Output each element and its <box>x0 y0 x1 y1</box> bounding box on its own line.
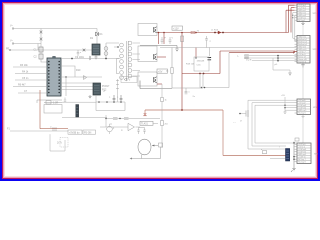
ground <box>291 169 296 173</box>
wire red feed XP1 a <box>289 5 295 32</box>
wire red +5 out <box>157 56 166 58</box>
ground <box>175 46 179 52</box>
ground <box>301 63 305 67</box>
LED HL1 red <box>144 110 146 113</box>
wire Q6 leads <box>110 124 113 134</box>
svg-text:2i:?t: 2i:?t <box>57 142 62 145</box>
wire primary bottom tap <box>117 59 120 74</box>
svg-text:R18 1k5: R18 1k5 <box>186 64 195 66</box>
Y-capacitor C13 <box>169 37 172 44</box>
svg-text:PwrOK 11: PwrOK 11 <box>298 62 306 64</box>
opto coupler U3 <box>93 83 101 95</box>
wire 5V feeds <box>248 100 295 105</box>
connector XP2 <box>297 36 310 64</box>
chassis link XP1-XP2 <box>302 26 304 36</box>
wire to IC pin <box>41 45 47 62</box>
wire return dark <box>140 81 172 89</box>
svg-text:-- -: -- - <box>233 122 236 124</box>
diode D3 <box>104 47 108 51</box>
fuse FU2 <box>191 31 195 33</box>
capacitor C15 <box>205 36 208 48</box>
wire U2 drain row <box>61 58 121 60</box>
wire red drop main <box>181 33 183 111</box>
node B <box>65 76 67 78</box>
transformer T1 secondary winding <box>128 41 132 78</box>
wire pin left 3 <box>15 79 47 81</box>
svg-text:1N4148: 1N4148 <box>197 61 205 63</box>
svg-text:L1 R15: L1 R15 <box>211 30 219 32</box>
node red joints <box>158 32 160 34</box>
wire red 3V3 <box>157 83 162 85</box>
wire earth <box>10 49 92 51</box>
wire drop to R21 <box>161 84 163 98</box>
node red <box>181 109 183 111</box>
ground <box>301 22 305 26</box>
wire feedback <box>61 66 75 77</box>
diode VD2 <box>154 54 157 60</box>
svg-text:C5 1n: C5 1n <box>22 77 29 80</box>
resistor R22 <box>113 118 118 120</box>
capacitor C20 <box>143 128 145 135</box>
rectifier box 3 <box>138 72 157 86</box>
svg-text:R6 4k7: R6 4k7 <box>18 84 26 87</box>
diode D4 <box>104 52 108 56</box>
diode VD4 red <box>218 31 221 34</box>
key box <box>295 138 299 141</box>
wire red feed XP1 b <box>291 8 295 33</box>
pin stubs XP4 <box>295 144 298 162</box>
resistor R2 <box>89 56 91 60</box>
rectifier box 2 <box>138 46 157 62</box>
svg-text:+5VSB do: +5VSB do <box>69 132 80 134</box>
IC U2 PWM controller <box>47 58 61 96</box>
wire 5VSB rail <box>95 95 97 111</box>
svg-text:o-: o- <box>237 56 239 58</box>
wire gnd bus b <box>295 15 297 41</box>
svg-text:1.3R: 1.3R <box>53 102 58 105</box>
comparator U5 <box>128 123 135 130</box>
transformer T1 primary winding <box>120 43 124 79</box>
capacitor C21 <box>64 98 66 102</box>
wire sense line 3 <box>252 60 297 62</box>
capacitor C22 <box>77 50 80 56</box>
svg-text:PS-ON: PS-ON <box>84 132 92 134</box>
rectifier box 1 <box>138 24 157 36</box>
wire vertical mid <box>161 102 163 149</box>
wire dark return <box>140 45 177 47</box>
diode VD1 <box>154 27 157 33</box>
svg-text:R3 10k: R3 10k <box>20 64 28 67</box>
wire +5 bus <box>285 97 295 112</box>
thermistor R25 <box>159 143 163 147</box>
wire N-E link <box>37 44 39 51</box>
svg-text:pG: pG <box>275 64 278 66</box>
wire aux row2 <box>62 101 96 103</box>
wire pin left 5 <box>18 92 47 94</box>
transistor Q6 <box>107 126 113 132</box>
node C <box>98 101 100 103</box>
wire bus top <box>96 101 125 103</box>
wire 5VSB line <box>10 130 68 132</box>
capacitor CX2 <box>39 54 43 59</box>
wire out rows bottom <box>248 143 297 149</box>
connector XP4 <box>297 143 311 164</box>
resistor R27 dark <box>76 105 79 118</box>
wire feed navy <box>270 158 286 160</box>
node sense joints <box>277 55 279 57</box>
bridge rectifier U1 <box>92 44 100 55</box>
transistor Q7 <box>60 138 68 148</box>
net label box TL431 <box>140 121 153 125</box>
svg-text:PE: PE <box>6 48 10 51</box>
wire red pin stub <box>294 52 298 54</box>
border frame red inner <box>3 3 318 179</box>
node A <box>71 58 73 60</box>
svg-text:NC key 8: NC key 8 <box>298 162 305 164</box>
fuse F1 <box>40 31 43 34</box>
capacitor C18 <box>161 121 164 126</box>
diode box aux <box>121 77 137 83</box>
capacitor C14 red <box>181 36 184 42</box>
resistor R17 <box>172 48 203 89</box>
capacitor CX1 <box>39 47 43 52</box>
wire red 12V loop <box>145 110 286 156</box>
net label box 5VSB <box>68 130 82 134</box>
wire pin left 4 <box>13 86 47 88</box>
pin stubs XP2 <box>295 37 298 62</box>
wire pin left 2 <box>15 73 47 75</box>
svg-text:NC key1: NC key1 <box>298 20 305 22</box>
svg-text:C9 100n: C9 100n <box>75 56 85 59</box>
node D <box>117 46 119 48</box>
snubber box <box>44 105 62 114</box>
wire opto rows <box>61 83 93 90</box>
wire aux <box>37 100 62 103</box>
wire riser 3 <box>254 105 256 143</box>
wire red feed XP1 c <box>286 10 295 32</box>
resistor R19 <box>244 55 249 56</box>
svg-text:mQ R: mQ R <box>246 59 252 61</box>
wire aux winding <box>117 79 119 102</box>
capacitor C10 <box>113 95 116 102</box>
wire aux row3 <box>62 117 107 119</box>
transformer T1 core <box>127 41 129 80</box>
wire left loop <box>50 134 65 151</box>
Y-capacitor C12 <box>161 37 164 44</box>
net label box OUT <box>157 69 168 73</box>
diode D2 <box>84 76 87 80</box>
wire fb rows <box>100 115 160 127</box>
ground <box>94 55 97 59</box>
svg-text:NC key 6: NC key 6 <box>298 113 305 115</box>
resistor R20 <box>244 57 249 58</box>
svg-text:R10: R10 <box>76 69 81 72</box>
wire fan return <box>132 147 161 159</box>
wire red 12V mid <box>182 73 220 75</box>
wire chassis <box>302 67 304 99</box>
fuse F2 <box>83 49 86 52</box>
wire sense return <box>200 53 229 88</box>
wire bridge input vertical <box>96 29 98 45</box>
wire gnd bus a <box>293 13 295 39</box>
net label box VCC <box>172 26 183 30</box>
resistor R8 <box>44 101 62 105</box>
capacitor C19 <box>137 128 139 135</box>
pin stubs XP3 <box>295 100 298 113</box>
resistor R21 <box>161 98 164 102</box>
svg-text:R4 1k: R4 1k <box>22 71 29 74</box>
wire bus into XP2 <box>293 38 297 41</box>
node red mid <box>214 32 216 34</box>
connector XP1 <box>297 4 310 22</box>
wire bus bottom <box>96 102 125 111</box>
wire down <box>65 77 67 96</box>
wire secondary taps <box>133 43 141 76</box>
ground <box>288 73 292 75</box>
wire red second <box>229 52 295 54</box>
wire into comparator <box>136 123 159 127</box>
wire source row <box>61 76 102 78</box>
svg-text:TL431: TL431 <box>141 123 148 126</box>
resistor R16 <box>209 48 211 57</box>
capacitor C17 <box>185 88 188 94</box>
wire red drop 1 <box>158 33 160 45</box>
ground <box>88 95 91 99</box>
arrow mark <box>293 142 295 144</box>
fan M1 <box>138 139 151 155</box>
resistor R24 <box>52 128 57 130</box>
resistor R23 <box>124 118 129 120</box>
svg-text:+5V: +5V <box>158 70 163 73</box>
wire gnd drop <box>293 144 295 168</box>
wire primary top <box>106 43 119 59</box>
resistor R26 <box>263 151 267 154</box>
pin stubs XP1 <box>295 5 298 20</box>
wire pin left 1 <box>13 66 47 68</box>
net label box PSON <box>83 130 96 134</box>
wire fan arrow <box>152 145 158 147</box>
wire AC line top <box>13 28 97 30</box>
wire pwrok loop <box>273 58 290 73</box>
wire sense line 2 <box>244 57 297 59</box>
wire +12V rail red <box>157 32 289 34</box>
chassis mark <box>302 115 305 118</box>
wire riser 1 <box>247 100 249 149</box>
wire red drop 3 <box>195 48 197 58</box>
connector XP3 <box>297 99 311 115</box>
node red taps <box>199 73 201 75</box>
diode VD3 <box>154 77 157 83</box>
border frame blue outer <box>1 1 319 180</box>
wire sense line 1 <box>244 55 297 57</box>
wire riser 2 <box>251 103 253 146</box>
svg-text:+12V: +12V <box>173 27 179 30</box>
transistor Q5 <box>246 110 248 117</box>
fuse holder dark <box>286 149 290 162</box>
wire red riser <box>220 51 295 74</box>
wire standby red <box>40 90 68 129</box>
varistor X2 <box>40 38 43 41</box>
diode D1 <box>96 32 99 36</box>
wire red drop 2 <box>163 33 165 45</box>
wire AC neutral <box>13 43 41 45</box>
feedback box U4 <box>194 57 209 71</box>
wire gnd rail <box>160 47 296 49</box>
node E <box>105 58 107 60</box>
terminal pins <box>12 28 14 30</box>
wire fuse vertical <box>40 29 42 46</box>
capacitor C11 <box>120 95 123 102</box>
svg-text:+5V: +5V <box>281 95 285 97</box>
